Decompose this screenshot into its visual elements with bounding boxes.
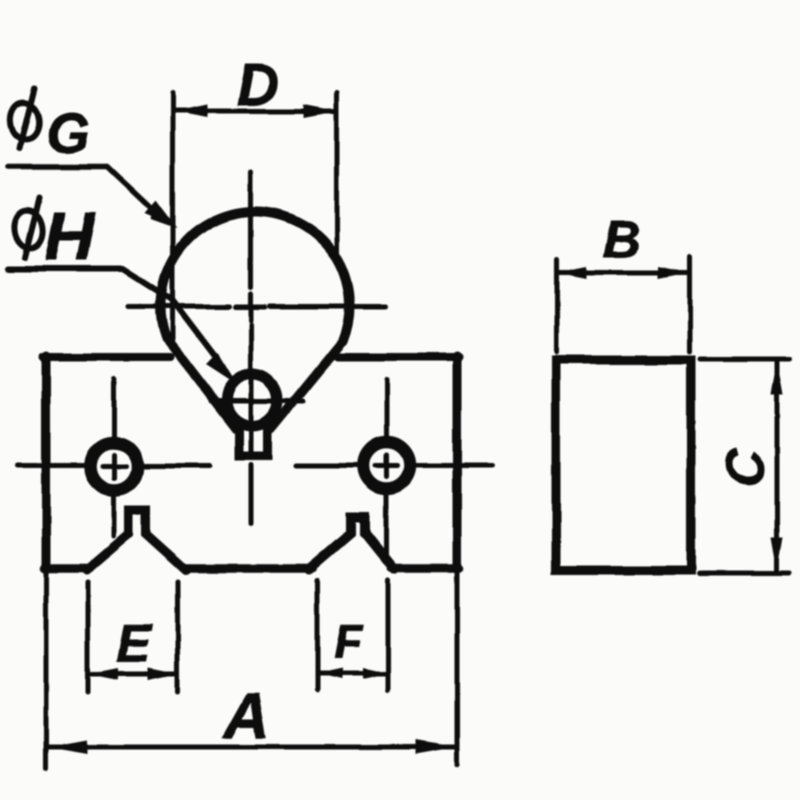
dimension C arrow top: [771, 361, 783, 395]
block bottom edge middle segment: [184, 564, 313, 573]
dimension C extension line bottom: [699, 571, 790, 576]
leader arrow phi H: [206, 354, 238, 386]
big circle vertical centerline: [248, 172, 254, 524]
dimension A line: [48, 745, 455, 750]
side view rectangle: [556, 360, 691, 570]
dimension B line: [558, 271, 687, 276]
svg-text:C: C: [717, 448, 775, 487]
big circle horizontal centerline: [128, 304, 385, 310]
dimension F extension line left: [315, 580, 320, 690]
svg-text:H: H: [44, 197, 96, 275]
label B: [603, 211, 641, 269]
dimension A arrow right: [416, 740, 456, 754]
dimension E line: [89, 671, 177, 676]
dimension E arrow right: [148, 668, 178, 680]
dimension B extension line right: [687, 257, 692, 352]
label phi H symbol: [12, 198, 45, 258]
dimension C line: [775, 362, 780, 570]
label D: [237, 53, 279, 118]
leader arrow phi G: [145, 201, 178, 229]
dimension D arrow left: [174, 105, 208, 118]
dimension D extension line right: [334, 93, 339, 252]
dimension A extension line right: [455, 569, 460, 765]
svg-text:B: B: [603, 211, 641, 269]
label F: [334, 615, 364, 668]
leader line phi G: [8, 167, 158, 215]
dimension D extension line left: [170, 93, 175, 340]
dimension F arrow left: [317, 668, 342, 679]
dimension E extension line right: [176, 582, 181, 692]
svg-text:F: F: [334, 615, 364, 668]
label H: [44, 197, 96, 275]
dimension B extension line left: [555, 259, 560, 352]
dimension F arrow right: [363, 668, 388, 679]
leader line phi H: [8, 269, 216, 358]
block bottom edge left segment: [44, 564, 90, 573]
block front view left edge: [42, 356, 51, 569]
funnel left line: [166, 338, 236, 429]
small hole horizontal centerline: [211, 399, 303, 404]
left notch E slot: [87, 510, 186, 570]
dimension F line: [318, 671, 387, 676]
dimension A extension line left: [44, 569, 49, 769]
block front view right edge: [453, 356, 462, 569]
svg-text:E: E: [116, 615, 152, 673]
dimension C extension line top: [700, 357, 790, 362]
label C: [717, 448, 775, 487]
block bottom edge right segment: [391, 564, 459, 573]
svg-text:G: G: [46, 101, 90, 164]
dimension D arrow right: [303, 105, 337, 118]
right hole vertical centerline: [384, 379, 389, 557]
left mount hole circle: [91, 443, 138, 490]
dimension E extension line left: [86, 582, 91, 692]
small hole circle H: [227, 375, 278, 426]
label G: [46, 101, 90, 164]
dimension C arrow bottom: [771, 537, 783, 571]
dimension A arrow left: [47, 740, 87, 754]
big bore circle G: [160, 211, 349, 341]
dimension D line: [176, 109, 335, 114]
label phi G symbol: [8, 88, 41, 148]
block front view top edge right segment: [337, 353, 459, 361]
dimension E arrow left: [88, 668, 118, 680]
funnel right line: [271, 341, 343, 429]
right mount hole circle: [363, 442, 410, 489]
right hole horizontal centerline: [296, 463, 492, 468]
block front view top edge left segment: [43, 353, 170, 361]
dimension B arrow right: [658, 267, 688, 279]
svg-text:A: A: [222, 680, 270, 752]
label E: [116, 615, 152, 673]
left hole vertical centerline: [112, 379, 117, 536]
svg-text:D: D: [237, 53, 279, 118]
dimension B arrow left: [557, 267, 587, 279]
right notch F slot: [309, 517, 394, 569]
left hole horizontal centerline: [17, 464, 210, 469]
tab below small hole: [239, 424, 268, 456]
dimension F extension line right: [386, 580, 391, 690]
label A: [222, 680, 270, 752]
